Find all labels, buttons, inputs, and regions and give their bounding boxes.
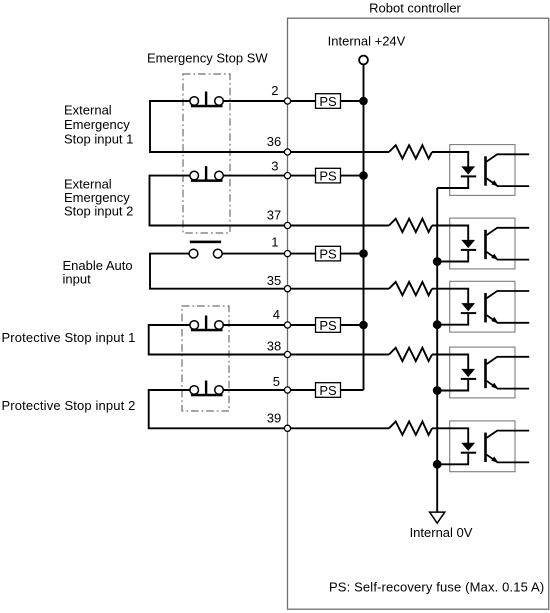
svg-text:Internal +24V: Internal +24V — [328, 33, 406, 48]
svg-text:2: 2 — [271, 83, 278, 98]
svg-text:5: 5 — [273, 374, 280, 389]
switch S2 (NC pushbutton contacts) — [190, 166, 223, 182]
wire external loop row 1 / row 35 — [150, 254, 288, 289]
wire PS5 to +24V rail end — [341, 389, 364, 391]
resistor R5 — [389, 422, 432, 435]
pin 1 terminal — [284, 251, 290, 257]
pin 38 terminal — [284, 351, 290, 357]
svg-text:Stop input 2: Stop input 2 — [64, 204, 133, 219]
wire pin 4 to PS4 — [288, 324, 316, 326]
svg-text:Internal 0V: Internal 0V — [410, 525, 473, 540]
svg-text:Stop input 1: Stop input 1 — [64, 131, 133, 146]
svg-text:4: 4 — [273, 307, 280, 322]
wire U4 LED cathode lead to bus — [437, 380, 468, 391]
svg-text:PS: PS — [319, 318, 337, 333]
optocoupler U3 package — [450, 281, 515, 332]
wire U2 LED cathode lead to bus — [437, 251, 468, 262]
fuse PS4 (self-recovery fuse) — [316, 318, 341, 333]
LED D4 — [461, 369, 476, 380]
emergency stop SW dash-dot enclosure — [183, 74, 230, 233]
wire pin 5 to PS5 — [288, 389, 316, 391]
label: External Emergency Stop input 1 — [64, 102, 133, 146]
svg-text:39: 39 — [267, 411, 281, 426]
switch S4 (NC pushbutton contacts) — [190, 316, 223, 332]
svg-text:Protective Stop input 2: Protective Stop input 2 — [2, 398, 136, 413]
label: External Emergency Stop input 2 — [64, 176, 133, 218]
wire pin 39 to resistor R5 — [288, 427, 390, 429]
phototransistor Q1 — [484, 154, 529, 186]
wire U5 LED cathode lead to bus — [437, 454, 468, 465]
wire U4 LED anode lead — [432, 355, 468, 370]
protective stop switches dash-dot enclosure — [182, 306, 229, 411]
wire switch S5 to pin 5 — [223, 389, 287, 391]
wire pin 3 to PS2 — [288, 175, 316, 177]
svg-text:1: 1 — [271, 234, 278, 249]
junction on cathode bus at U5 — [433, 460, 442, 469]
wire switch S2 to pin 3 — [223, 175, 287, 177]
svg-text:External: External — [64, 102, 112, 117]
resistor R3 — [389, 282, 432, 295]
junction on cathode bus at U3 — [433, 320, 442, 329]
resistor R4 — [389, 348, 432, 361]
wire U3 LED anode lead — [432, 289, 468, 304]
svg-text:38: 38 — [267, 339, 281, 354]
svg-text:3: 3 — [271, 159, 278, 174]
wire external loop row 4 / row 38 — [149, 325, 288, 355]
wire PS2 to +24V rail — [341, 175, 364, 177]
Internal 0V terminal (ground) — [430, 512, 445, 523]
wire external loop row 3 / row 37 — [150, 176, 288, 226]
svg-text:37: 37 — [267, 208, 281, 223]
svg-text:35: 35 — [267, 273, 281, 288]
svg-text:PS: PS — [319, 383, 337, 398]
switch S1 (NC pushbutton contacts) — [190, 92, 223, 108]
svg-text:input: input — [63, 271, 92, 286]
wire pin 36 to resistor R1 — [288, 151, 390, 153]
wire pin 37 to resistor R2 — [288, 225, 390, 227]
junction on +24V rail row 3 — [359, 171, 368, 180]
+24V terminal — [359, 56, 368, 65]
svg-text:36: 36 — [267, 134, 281, 149]
svg-text:Robot controller: Robot controller — [369, 1, 461, 16]
optocoupler U5 package — [450, 421, 515, 472]
LED D2 — [461, 240, 476, 251]
fuse PS3 (self-recovery fuse) — [316, 246, 341, 261]
svg-text:Protective Stop input 1: Protective Stop input 1 — [2, 330, 136, 345]
LED D3 — [461, 303, 476, 314]
svg-text:PS: PS — [319, 168, 337, 183]
junction on cathode bus at U4 — [433, 386, 442, 395]
pin 5 terminal — [284, 387, 290, 393]
wire PS1 to +24V rail — [341, 100, 364, 102]
LED D1 — [461, 166, 476, 177]
wire external loop row 2 / row 36 — [150, 101, 288, 152]
pin 3 terminal — [284, 173, 290, 179]
wire U3 LED cathode lead to bus — [437, 314, 468, 325]
wire pin 2 to PS1 — [288, 100, 316, 102]
optocoupler U4 package — [450, 347, 515, 398]
wire U1 LED anode lead — [432, 152, 468, 167]
robot controller enclosure box — [288, 18, 549, 609]
phototransistor Q4 — [484, 357, 529, 389]
junction on +24V rail row 2 — [359, 97, 368, 106]
pin 4 terminal — [284, 322, 290, 328]
optocoupler U2 package — [450, 218, 515, 269]
resistor R2 — [389, 219, 432, 232]
wire external loop row 5 / row 39 — [149, 390, 288, 428]
phototransistor Q2 — [484, 228, 529, 260]
pin 36 terminal — [284, 149, 290, 155]
svg-text:Emergency Stop SW: Emergency Stop SW — [147, 51, 268, 66]
phototransistor Q5 — [484, 431, 529, 463]
wire pin 35 to resistor R3 — [288, 288, 390, 290]
wire U1 LED cathode lead to bus — [437, 177, 468, 188]
wire +24V rail — [363, 64, 365, 390]
wire U5 LED anode lead — [432, 428, 468, 443]
switch S5 (NC pushbutton contacts) — [190, 381, 223, 397]
junction on cathode bus at U2 — [433, 257, 442, 266]
wire pin 1 to PS3 — [288, 253, 316, 255]
wire U2 LED anode lead — [432, 226, 468, 241]
pin 37 terminal — [284, 222, 290, 228]
switch S3 (NO pushbutton contacts) — [189, 241, 222, 258]
svg-text:PS: PS — [319, 94, 337, 109]
wire pin 38 to resistor R4 — [288, 354, 390, 356]
phototransistor Q3 — [484, 291, 529, 323]
svg-text:PS: PS — [319, 246, 337, 261]
fuse PS5 (self-recovery fuse) — [316, 383, 341, 398]
junction on +24V rail row 1 — [359, 249, 368, 258]
LED D5 — [461, 443, 476, 454]
wire cathode bus to Internal 0V — [436, 188, 438, 512]
fuse PS2 (self-recovery fuse) — [316, 168, 341, 183]
optocoupler U1 package — [450, 145, 515, 196]
wire PS4 to +24V rail — [341, 324, 364, 326]
junction on +24V rail row 4 — [359, 321, 368, 330]
label: Enable Auto input — [63, 258, 133, 287]
pin 39 terminal — [284, 425, 290, 431]
svg-text:Emergency: Emergency — [64, 117, 130, 132]
pin 35 terminal — [284, 286, 290, 292]
svg-text:PS: Self-recovery fuse (Max. 0: PS: Self-recovery fuse (Max. 0.15 A) — [329, 580, 544, 595]
wire switch S1 to pin 2 — [223, 100, 287, 102]
pin 2 terminal — [284, 98, 290, 104]
wire switch S4 to pin 4 — [223, 324, 287, 326]
wire PS3 to +24V rail — [341, 253, 364, 255]
fuse PS1 (self-recovery fuse) — [316, 94, 341, 109]
resistor R1 — [389, 145, 432, 158]
wire switch S3 to pin 1 — [222, 253, 287, 255]
